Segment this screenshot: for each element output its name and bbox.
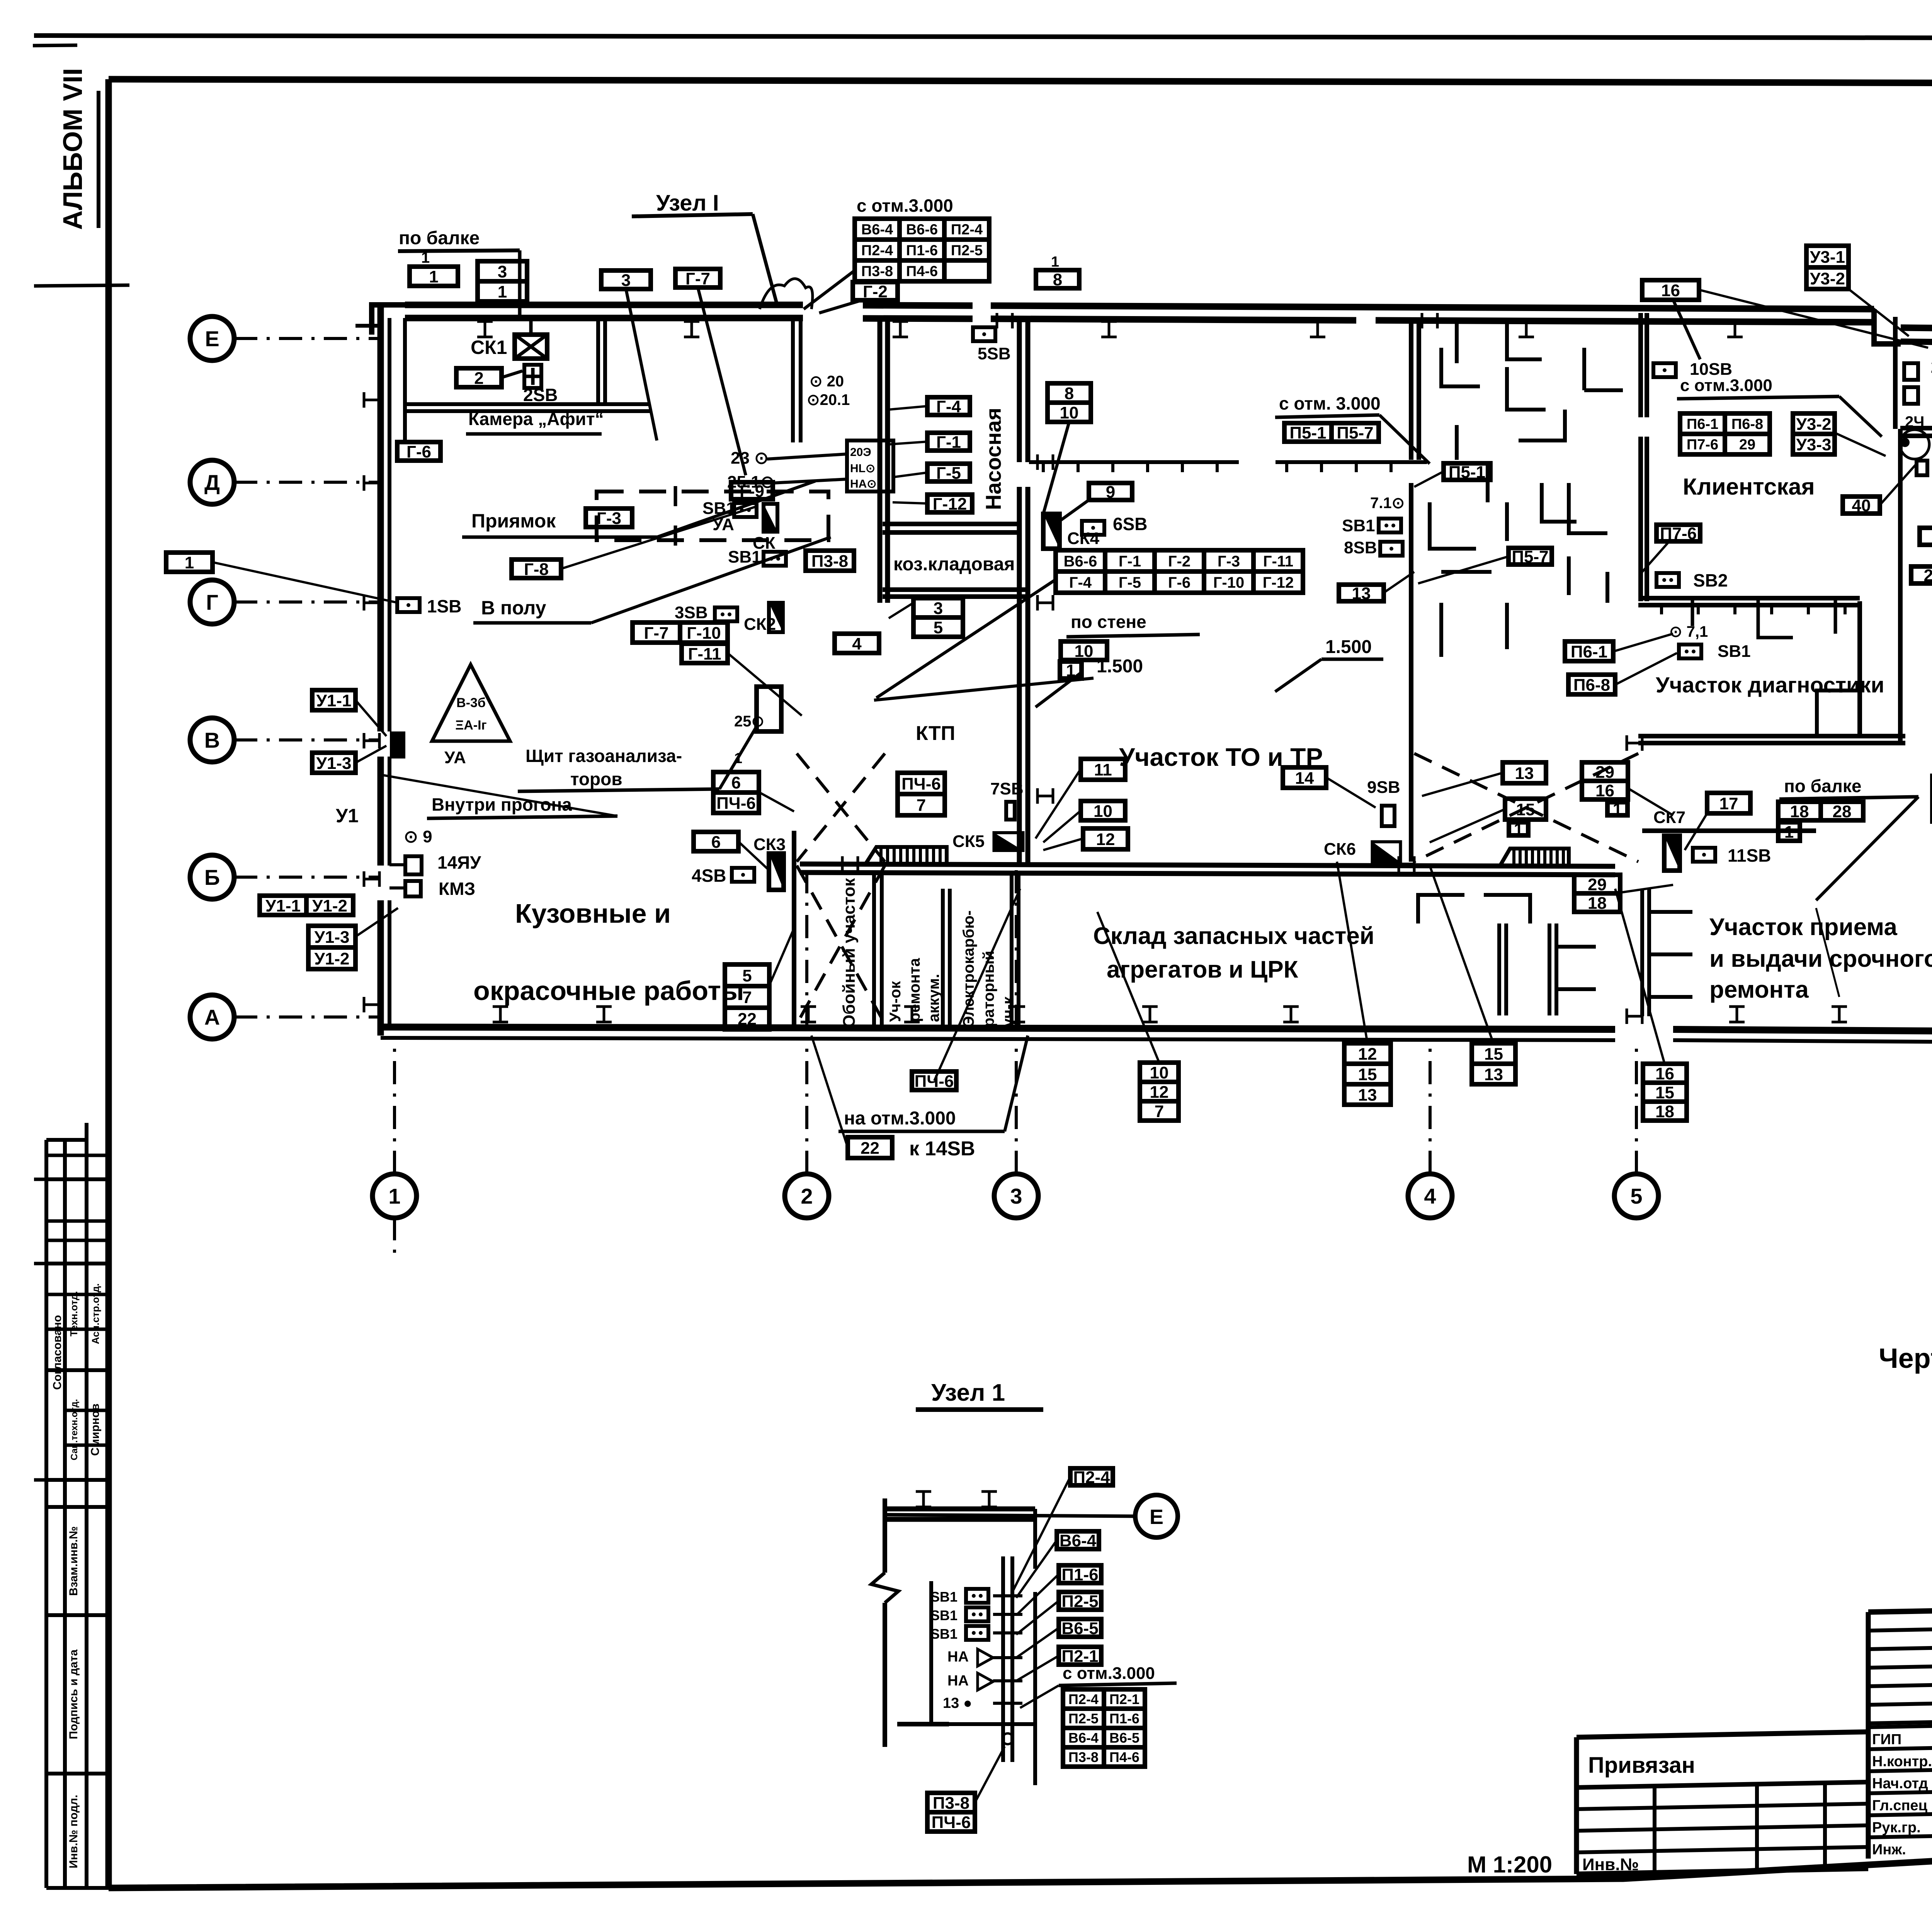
svg-text:SB1: SB1 xyxy=(930,1607,957,1623)
label box 3/5 xyxy=(913,598,963,637)
detail wall top double xyxy=(887,1507,1035,1512)
small partitions upper middle (between 3 and 4) xyxy=(1430,348,1607,595)
device СК4 xyxy=(1043,514,1060,549)
svg-text:П2-4: П2-4 xyxy=(1073,1468,1110,1487)
detail wall bottom horizontal xyxy=(949,1722,1035,1726)
svg-text:по балке: по балке xyxy=(1784,776,1862,796)
svg-text:КТП: КТП xyxy=(916,722,955,745)
label box У3-2/У3-3 xyxy=(1793,413,1835,454)
svg-text:У3-3: У3-3 xyxy=(1796,435,1832,454)
wall client-room right vertical xyxy=(1893,317,1898,429)
grid axis Е circle xyxy=(190,316,234,361)
label box В6-5 xyxy=(1059,1619,1101,1638)
wall between bays at column 4 area vertical xyxy=(1409,320,1413,460)
role table rows xyxy=(1868,1722,1932,1858)
svg-text:П5-1: П5-1 xyxy=(1449,463,1485,481)
svg-text:У1-2: У1-2 xyxy=(315,949,350,968)
svg-text:SB1: SB1 xyxy=(728,548,761,566)
svg-text:1SB: 1SB xyxy=(427,596,461,616)
svg-text:В6-5: В6-5 xyxy=(1061,1619,1098,1638)
detail wall left vertical with break xyxy=(883,1498,887,1573)
switch СК2 device xyxy=(769,603,783,632)
device СК3 xyxy=(769,854,784,890)
svg-text:П1-6: П1-6 xyxy=(1061,1565,1098,1584)
svg-text:П1-6: П1-6 xyxy=(1109,1711,1139,1726)
svg-text:Г-10: Г-10 xyxy=(1213,574,1245,591)
label box П6-8 xyxy=(1568,675,1615,694)
leader Г-11 to wall xyxy=(728,653,802,716)
svg-text:У1-1: У1-1 xyxy=(265,896,301,915)
label box 1 xyxy=(410,267,458,286)
grid axis 4 dash-dot line xyxy=(1429,1039,1432,1174)
svg-text:П2-5: П2-5 xyxy=(951,243,983,259)
svg-text:Склад запасных частей: Склад запасных частей xyxy=(1093,923,1374,949)
wall pump-room left (Насосная) vertical double xyxy=(878,318,883,603)
detail bottom stub xyxy=(897,1722,949,1726)
svg-text:Сан.техн.отд.: Сан.техн.отд. xyxy=(69,1399,80,1461)
label box 12/15/13 xyxy=(1344,1043,1391,1105)
svg-text:2: 2 xyxy=(801,1184,813,1208)
stamp strip rotated captions xyxy=(51,1283,102,1868)
svg-text:У1-2: У1-2 xyxy=(312,896,347,915)
svg-text:1: 1 xyxy=(1613,800,1622,819)
label box Г-7 xyxy=(675,269,720,288)
svg-text:НА: НА xyxy=(947,1649,969,1665)
svg-text:7: 7 xyxy=(742,988,752,1007)
button 10SB xyxy=(1653,363,1676,377)
top exterior wall inner line xyxy=(405,315,803,321)
label box Г-3 xyxy=(586,509,632,528)
label box 4 xyxy=(835,634,879,653)
svg-text:11SB: 11SB xyxy=(1728,845,1771,866)
svg-text:10: 10 xyxy=(1150,1063,1169,1082)
svg-text:П5-1: П5-1 xyxy=(1289,423,1326,442)
svg-text:по стене: по стене xyxy=(1071,612,1146,632)
svg-text:Инж.: Инж. xyxy=(1872,1842,1906,1858)
label box 16/15/18 xyxy=(1643,1064,1687,1121)
svg-text:⊙ 20: ⊙ 20 xyxy=(810,373,844,390)
partition wall Обойный left vertical xyxy=(792,831,796,1026)
left stamp strip grid xyxy=(34,1123,111,1888)
svg-text:16: 16 xyxy=(1595,781,1614,800)
svg-text:У1: У1 xyxy=(336,805,359,827)
svg-text:3SB: 3SB xyxy=(675,603,708,622)
svg-text:АЛЬБОМ VII: АЛЬБОМ VII xyxy=(58,68,88,230)
svg-text:НА: НА xyxy=(947,1673,969,1689)
button SB1 diag xyxy=(1679,645,1701,658)
svg-text:СК1: СК1 xyxy=(471,337,507,358)
svg-text:Г-9: Г-9 xyxy=(740,482,764,501)
svg-text:Г-10: Г-10 xyxy=(687,624,721,643)
label box 11 xyxy=(1081,759,1125,780)
grid axis А circle xyxy=(190,995,234,1039)
svg-text:В6-4: В6-4 xyxy=(1068,1730,1099,1746)
left exterior wall outer line xyxy=(378,305,384,731)
svg-text:15: 15 xyxy=(1484,1044,1503,1063)
svg-text:В6-5: В6-5 xyxy=(1109,1730,1139,1746)
button 5SB top xyxy=(973,327,995,341)
svg-text:Клиентская: Клиентская xyxy=(1683,474,1815,500)
label box 14 xyxy=(1283,767,1326,788)
label box Г-7/Г-10 xyxy=(633,622,728,643)
leader from box Г-7 down xyxy=(698,287,746,475)
svg-text:3: 3 xyxy=(934,599,943,618)
svg-text:3: 3 xyxy=(1010,1184,1022,1208)
detail axis line to Е circle xyxy=(887,1515,1134,1516)
svg-text:12: 12 xyxy=(1096,830,1115,849)
svg-text:В полу: В полу xyxy=(481,597,546,619)
label box П2-4 xyxy=(1070,1468,1113,1487)
leader 3/5 to wall xyxy=(889,603,913,618)
svg-text:Гл.спец: Гл.спец xyxy=(1872,1798,1928,1814)
svg-text:Г-1: Г-1 xyxy=(1119,553,1141,570)
label box П2-1 xyxy=(1059,1647,1101,1666)
svg-text:6: 6 xyxy=(731,773,741,792)
cloud bump on wall xyxy=(760,279,813,309)
crane beam line with ticks left xyxy=(1029,460,1239,464)
svg-text:25⊙: 25⊙ xyxy=(734,713,764,730)
svg-text:6SB: 6SB xyxy=(1113,514,1147,534)
svg-text:ПЧ-6: ПЧ-6 xyxy=(915,1072,954,1091)
svg-text:Г-4: Г-4 xyxy=(936,397,961,416)
label box 2 xyxy=(456,368,502,388)
label box 18/28 xyxy=(1778,802,1863,821)
svg-text:П3-8: П3-8 xyxy=(861,264,893,280)
svg-text:к 14SB: к 14SB xyxy=(909,1138,975,1160)
svg-text:11: 11 xyxy=(1094,760,1112,779)
svg-text:5: 5 xyxy=(1630,1184,1642,1208)
svg-text:Г-12: Г-12 xyxy=(933,495,967,514)
label box П3-8 xyxy=(806,551,854,571)
leader from table to wall xyxy=(804,270,855,309)
small rooms middle-bottom partitions xyxy=(1418,895,1596,1015)
label box Г-1 xyxy=(927,433,970,452)
top-right bay wall step xyxy=(1874,309,1901,344)
svg-text:Е: Е xyxy=(1150,1505,1163,1529)
svg-text:8: 8 xyxy=(1053,270,1062,289)
svg-text:НА⊙: НА⊙ xyxy=(850,478,876,490)
svg-text:Техн.отд.: Техн.отд. xyxy=(68,1291,80,1336)
svg-text:1: 1 xyxy=(388,1184,400,1208)
svg-text:22: 22 xyxy=(861,1139,879,1158)
svg-text:⊙20.1: ⊙20.1 xyxy=(807,391,850,408)
svg-text:28: 28 xyxy=(1924,566,1932,585)
grid axis 1 dash-dot line xyxy=(393,1039,396,1174)
wall pump-room bottom xyxy=(883,522,1019,526)
svg-text:Г-12: Г-12 xyxy=(1263,574,1294,591)
detail I-beam symbols xyxy=(916,1492,931,1507)
svg-text:5SB: 5SB xyxy=(978,344,1011,363)
svg-text:Г-2: Г-2 xyxy=(863,282,888,301)
svg-text:8SB: 8SB xyxy=(1344,538,1377,557)
label box П5-7 xyxy=(1509,547,1552,566)
svg-text:П5-7: П5-7 xyxy=(1337,423,1373,442)
svg-text:20Э: 20Э xyxy=(850,446,871,459)
label box 1 xyxy=(1607,800,1628,819)
svg-text:1: 1 xyxy=(1514,820,1523,839)
label box 22 xyxy=(848,1137,892,1158)
crane beam line with ticks right xyxy=(1276,460,1427,464)
svg-text:У3-2: У3-2 xyxy=(1810,269,1845,288)
wall storeroom bottom (коз.кладовая) xyxy=(883,587,1028,592)
label box П5-1/П5-7 xyxy=(1284,423,1379,442)
svg-text:15: 15 xyxy=(1358,1065,1377,1084)
label box 15 xyxy=(1505,799,1546,820)
label box 17 xyxy=(1707,793,1750,813)
label box У1-1/У1-2 xyxy=(260,896,353,915)
left wall inner face at camera bay xyxy=(403,318,407,440)
svg-text:Г-7: Г-7 xyxy=(644,624,668,643)
svg-text:П6-8: П6-8 xyxy=(1731,416,1763,432)
svg-text:1: 1 xyxy=(1051,254,1059,270)
H column symbols left wall xyxy=(364,392,379,408)
label box Г-11 xyxy=(682,644,728,663)
label box 9 xyxy=(1089,483,1132,502)
svg-text:В-3б: В-3б xyxy=(456,696,486,710)
label box 29/16 xyxy=(1582,762,1628,800)
label box Г-6 xyxy=(397,442,440,461)
detail inner vertical xyxy=(929,1581,933,1725)
svg-text:1: 1 xyxy=(1784,823,1794,842)
svg-text:6: 6 xyxy=(711,833,721,852)
svg-text:раторный: раторный xyxy=(980,951,997,1027)
detail feeder table xyxy=(1063,1689,1145,1767)
leader from big table to wall xyxy=(876,580,1056,698)
grid axis Г dash-dot line xyxy=(234,600,381,604)
svg-text:П6-1: П6-1 xyxy=(1571,642,1607,661)
grid axis Д dash-dot line xyxy=(234,481,381,484)
svg-text:Инв.№: Инв.№ xyxy=(1582,1855,1639,1874)
svg-text:Рук.гр.: Рук.гр. xyxy=(1872,1820,1921,1836)
leaders 11 10 12 to СК5 xyxy=(1036,769,1081,838)
detail small circle node xyxy=(1002,1733,1013,1744)
label box 15/13 xyxy=(1472,1043,1515,1084)
label box 5/7/22 xyxy=(725,964,769,1029)
grid axis В dash-dot line xyxy=(234,738,381,742)
label box 10/12/7 xyxy=(1140,1063,1179,1121)
label box У1-3 xyxy=(312,753,355,773)
svg-text:СК3: СК3 xyxy=(753,835,786,854)
button 11SB xyxy=(1693,848,1715,862)
wall under U3 bay horizontal xyxy=(1900,426,1932,430)
grid axis 3 dash-dot line xyxy=(1015,1039,1018,1174)
label box Г-4 xyxy=(927,397,970,416)
svg-text:Согласовано: Согласовано xyxy=(51,1315,64,1390)
label box 1 xyxy=(1060,661,1082,680)
wall right of Afit area vertical xyxy=(791,321,795,442)
svg-text:13: 13 xyxy=(1515,764,1534,783)
stairs hatch near column 4 xyxy=(1499,849,1569,867)
svg-text:10: 10 xyxy=(1075,642,1094,661)
svg-text:Г-11: Г-11 xyxy=(688,645,721,663)
svg-text:3: 3 xyxy=(621,271,631,290)
label box У1-3/У1-2 xyxy=(308,926,355,969)
label box П7-6 xyxy=(1656,524,1700,543)
svg-text:7: 7 xyxy=(1155,1102,1164,1121)
svg-text:Г-5: Г-5 xyxy=(1119,574,1141,591)
leaders П6 boxes xyxy=(1613,634,1673,651)
I-beam column symbols top wall xyxy=(477,321,493,337)
label box 1 xyxy=(1509,820,1528,839)
svg-text:ремонта: ремонта xyxy=(906,958,923,1022)
svg-text:4: 4 xyxy=(852,634,862,653)
label box 12 xyxy=(1083,828,1128,849)
gas panel block xyxy=(847,440,893,492)
svg-text:торов: торов xyxy=(570,769,622,789)
svg-text:П2-5: П2-5 xyxy=(1068,1711,1099,1726)
svg-text:П7-6: П7-6 xyxy=(1687,437,1718,453)
label box 16 xyxy=(1642,280,1699,300)
grid axis А dash-dot line xyxy=(234,1015,381,1019)
label box Г-9 xyxy=(731,482,773,501)
svg-text:10: 10 xyxy=(1094,802,1112,821)
svg-text:П2-5: П2-5 xyxy=(1061,1592,1098,1611)
svg-text:5: 5 xyxy=(934,618,943,637)
svg-text:Подпись и дата: Подпись и дата xyxy=(67,1649,80,1739)
grid axis Д circle xyxy=(190,460,234,504)
svg-text:П7-6: П7-6 xyxy=(1660,524,1697,543)
svg-text:Электрокарбю-: Электрокарбю- xyxy=(960,910,977,1027)
svg-text:2SB: 2SB xyxy=(523,385,558,405)
svg-text:1.500: 1.500 xyxy=(1097,656,1143,677)
grid axis 2 dash-dot line xyxy=(805,1039,808,1174)
svg-text:Г-3: Г-3 xyxy=(1218,553,1240,570)
svg-text:22: 22 xyxy=(738,1010,757,1029)
partition wall accumulator right vertical xyxy=(941,889,945,1026)
diagnostics room top wall xyxy=(1638,596,1860,600)
grid axis 5 circle xyxy=(1614,1174,1658,1218)
H column symbols interior xyxy=(1037,454,1053,470)
svg-text:1: 1 xyxy=(734,750,742,767)
svg-text:Нач.отд: Нач.отд xyxy=(1872,1776,1928,1792)
label box Г-2 xyxy=(853,282,898,301)
svg-text:Чертежи для справок: А-39: Чертежи для справок: А-39 xyxy=(1879,1343,1932,1374)
grid axis Б dash-dot line xyxy=(234,876,381,879)
svg-text:Н.контр.: Н.контр. xyxy=(1872,1753,1932,1770)
svg-text:13: 13 xyxy=(1484,1065,1503,1084)
partition wall Обойный right vertical xyxy=(872,875,876,1026)
svg-text:П3-8: П3-8 xyxy=(811,552,848,571)
svg-text:СК4: СК4 xyxy=(1067,529,1100,548)
svg-text:Камера „Афит“: Камера „Афит“ xyxy=(468,409,604,429)
svg-text:9SB: 9SB xyxy=(1367,778,1400,797)
svg-text:16: 16 xyxy=(1655,1064,1674,1083)
pit dashed rectangle Приямок xyxy=(597,492,828,540)
svg-text:Б: Б xyxy=(204,865,220,889)
device СК7 bowtie xyxy=(1664,836,1680,871)
svg-text:Смирнов: Смирнов xyxy=(89,1403,102,1456)
grid axis 1 dash-dot below circle xyxy=(393,1217,396,1260)
label box 16/15/18 col5... leaders xyxy=(1816,908,1839,997)
svg-text:П4-6: П4-6 xyxy=(1109,1749,1139,1765)
wall corridor right vertical double xyxy=(1017,318,1022,462)
svg-text:П2-4: П2-4 xyxy=(1068,1691,1099,1707)
device H under СК1 xyxy=(524,365,541,388)
svg-text:А: А xyxy=(204,1005,220,1029)
label box 8/10 xyxy=(1048,383,1091,422)
label box П5-1 xyxy=(1444,463,1490,481)
svg-text:УА: УА xyxy=(444,748,466,767)
svg-text:с отм.3.000: с отм.3.000 xyxy=(1063,1664,1155,1683)
leader Г-8 xyxy=(561,506,757,569)
svg-text:М 1:200: М 1:200 xyxy=(1467,1852,1552,1878)
reception area top wall xyxy=(1642,828,1816,833)
svg-text:Д: Д xyxy=(204,470,220,495)
svg-text:2Ч: 2Ч xyxy=(1905,413,1924,430)
svg-text:10: 10 xyxy=(1060,403,1079,422)
label box 13 xyxy=(1503,762,1546,783)
svg-text:8: 8 xyxy=(1065,384,1074,403)
filled circle device xyxy=(1900,438,1910,447)
bottom exterior wall outer line xyxy=(381,1027,1615,1029)
svg-text:У3-2: У3-2 xyxy=(1796,415,1832,434)
svg-text:П1-6: П1-6 xyxy=(906,243,938,259)
svg-text:коз.кладовая: коз.кладовая xyxy=(893,554,1015,575)
svg-text:18: 18 xyxy=(1790,802,1809,821)
svg-text:Привязан: Привязан xyxy=(1588,1753,1695,1778)
svg-text:Г-1: Г-1 xyxy=(936,433,961,452)
svg-text:П2-4: П2-4 xyxy=(861,243,893,259)
long wall row Б double xyxy=(800,864,1615,866)
detail label box П3-8/ПЧ-6 xyxy=(927,1793,975,1832)
svg-text:В6-6: В6-6 xyxy=(1064,553,1097,570)
svg-text:СК6: СК6 xyxy=(1324,840,1356,859)
dashed X brace bay column 3-4 xyxy=(1414,753,1638,862)
label box 40 xyxy=(1843,496,1880,515)
svg-text:13: 13 xyxy=(1352,584,1371,603)
svg-text:⊙ 9: ⊙ 9 xyxy=(404,827,432,846)
svg-text:В6-6: В6-6 xyxy=(906,222,938,238)
svg-text:П2-4: П2-4 xyxy=(951,222,983,238)
svg-text:Участок приема: Участок приема xyxy=(1709,914,1897,940)
label box ПЧ-6/7 xyxy=(898,773,945,815)
stairs hatch near column 2 xyxy=(866,847,947,864)
I-beam column symbols bottom wall xyxy=(493,1007,508,1022)
svg-text:3: 3 xyxy=(498,262,507,281)
svg-text:В6-4: В6-4 xyxy=(1060,1531,1097,1550)
detail riser double line xyxy=(1001,1556,1005,1762)
label box 29/18 xyxy=(1574,875,1620,913)
svg-text:7: 7 xyxy=(917,796,926,815)
top exterior wall outer line xyxy=(405,302,803,308)
leaders from bottom stacks up xyxy=(1097,912,1159,1063)
svg-text:29: 29 xyxy=(1739,437,1755,453)
svg-text:1: 1 xyxy=(429,267,438,286)
svg-text:У3-1: У3-1 xyxy=(1810,248,1845,267)
svg-text:Насосная: Насосная xyxy=(981,408,1005,510)
svg-text:2: 2 xyxy=(474,369,483,388)
svg-text:ПЧ-6: ПЧ-6 xyxy=(932,1813,971,1832)
camera Afit bay bottom xyxy=(405,402,651,406)
svg-text:Узел 1: Узел 1 xyxy=(931,1379,1005,1406)
svg-text:SB1: SB1 xyxy=(1342,516,1375,535)
svg-text:40: 40 xyxy=(1852,496,1871,515)
bottom exterior wall inner line xyxy=(381,1038,1615,1040)
wall device small box xyxy=(1917,461,1927,475)
grid axis 3 dash-dot inside plan xyxy=(1015,869,1018,1028)
grid axis 2 circle xyxy=(785,1174,829,1218)
grid axis 3 circle xyxy=(994,1174,1038,1218)
detail grid circle Е xyxy=(1135,1495,1178,1537)
svg-text:Обойный участок: Обойный участок xyxy=(840,878,859,1028)
svg-text:СК2: СК2 xyxy=(744,615,776,634)
label box 6/ПЧ-6 xyxy=(713,772,759,813)
grid axis 5 dash-dot line xyxy=(1635,1039,1638,1174)
label box У1-1 xyxy=(312,690,355,710)
svg-text:16: 16 xyxy=(1661,281,1680,300)
svg-text:Г-11: Г-11 xyxy=(1263,553,1293,570)
label box ПЧ-6 xyxy=(912,1071,956,1091)
